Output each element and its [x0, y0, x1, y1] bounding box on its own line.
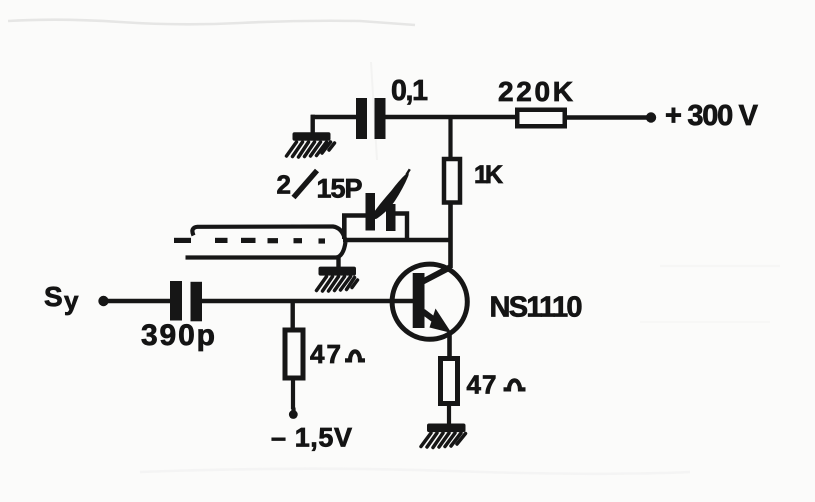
wire: trimmer right bracket: [395, 214, 407, 240]
wire: junction drop from top node to 1K: [448, 117, 452, 158]
svg-text:220K: 220K: [498, 76, 573, 107]
svg-text:0,1: 0,1: [391, 75, 428, 107]
wire: 47ohm to -1,5V terminal: [291, 380, 295, 409]
resistor R3 47ohm box (left): [285, 330, 303, 378]
wire: base wire to transistor: [202, 299, 413, 304]
wire: trimmer left bracket: [344, 216, 366, 240]
wire: collector vertical from 1K to transistor: [448, 204, 453, 268]
svg-text:15P: 15P: [317, 174, 363, 204]
svg-text:NS1110: NS1110: [490, 292, 583, 324]
resistor R1 1K box: [444, 159, 460, 203]
svg-text:390p: 390p: [141, 319, 215, 352]
ground G2 (middle): [317, 267, 358, 291]
svg-text:+ 300 V: + 300 V: [665, 100, 759, 132]
delay line bottom edge: [186, 242, 346, 258]
svg-text:47: 47: [467, 370, 497, 400]
ground G1 (top left): [287, 132, 335, 157]
omega right: [504, 380, 526, 389]
svg-text:S: S: [44, 281, 63, 312]
delay line dashed centre conductor: [174, 238, 325, 244]
wire: junction drop to 47ohm (left): [291, 301, 295, 330]
svg-text:– 1,5V: – 1,5V: [271, 423, 352, 453]
wire: emitter vertical to 47ohm: [447, 332, 452, 357]
svg-text:1K: 1K: [474, 161, 503, 189]
wire: mid node horizontal: [343, 238, 451, 243]
delay line top edge: [192, 227, 345, 240]
wire: 47ohm to bottom ground: [447, 403, 451, 424]
capacitor C3 plates: [170, 281, 182, 321]
terminal dot Sy: [98, 296, 108, 306]
resistor R4 47ohm box (emitter): [441, 359, 458, 404]
capacitor C1 plates: [356, 98, 367, 139]
terminal dot +300V: [646, 112, 656, 122]
wire: stub delay line to mid ground: [336, 256, 340, 268]
wire: stub to top-left ground: [311, 115, 315, 133]
omega left: [345, 351, 365, 360]
resistor R2 220K box: [517, 110, 565, 127]
trimmer capacitor C2 plates: [366, 193, 376, 231]
terminal dot -1,5V: [289, 410, 298, 419]
transistor Q1 NS1110: [392, 264, 467, 339]
ground G3 (bottom): [421, 424, 466, 448]
wire: top node horizontal: [311, 115, 650, 120]
svg-text:y: y: [64, 286, 79, 316]
wire: Sy to 390p: [104, 299, 170, 304]
svg-text:2: 2: [277, 170, 291, 200]
trimmer arrow: [372, 169, 409, 219]
